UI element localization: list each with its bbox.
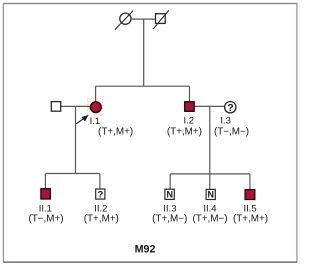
svg-text:(T+,M−): (T+,M−): [152, 213, 187, 224]
svg-text:(T−,M−): (T−,M−): [214, 126, 249, 137]
svg-text:(T+,M+): (T+,M+): [233, 213, 268, 224]
svg-text:M92: M92: [135, 243, 156, 255]
svg-text:I.3: I.3: [220, 116, 231, 127]
svg-text:(T+,M+): (T+,M+): [84, 213, 119, 224]
svg-text:(T+,M+): (T+,M+): [98, 126, 133, 137]
svg-text:?: ?: [97, 189, 103, 200]
svg-text:(T−,M+): (T−,M+): [28, 213, 63, 224]
svg-text:(T+,M−): (T+,M−): [192, 213, 227, 224]
svg-text:N: N: [166, 190, 173, 200]
svg-text:I.2: I.2: [184, 116, 195, 127]
svg-text:(T+,M+): (T+,M+): [167, 126, 202, 137]
svg-text:N: N: [208, 190, 215, 200]
svg-text:?: ?: [227, 102, 233, 114]
